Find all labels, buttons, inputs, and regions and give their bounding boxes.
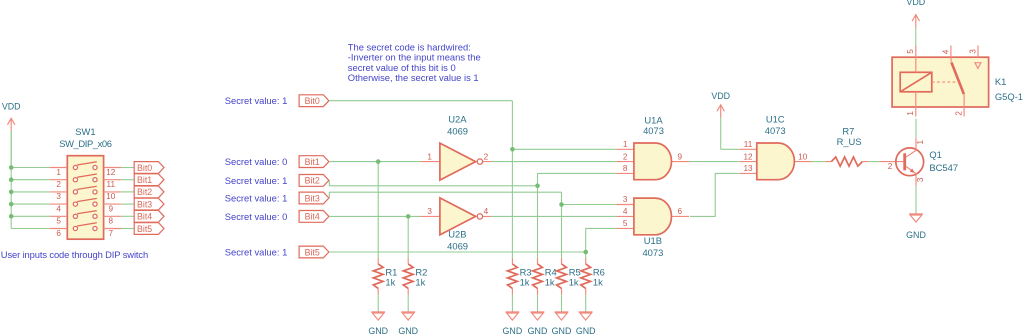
- svg-text:1: 1: [916, 139, 925, 144]
- wire Bit5 down to R6: [585, 252, 587, 258]
- svg-text:5: 5: [906, 49, 915, 54]
- svg-text:11: 11: [744, 140, 753, 149]
- junction Bit0 / U1A pin1: [510, 147, 515, 152]
- wire Bit2 up to U1A pin 8: [538, 173, 617, 185]
- switch SW1 SW_DIP_x06 body: [59, 126, 111, 239]
- svg-text:1k: 1k: [415, 277, 425, 288]
- AND gate U1B 4073: [616, 195, 689, 258]
- wire net Bit4 to U2B input: [329, 215, 421, 217]
- global label Bit2 (from SW1): [134, 186, 164, 198]
- svg-text:1k: 1k: [593, 277, 603, 288]
- svg-text:Bit0: Bit0: [137, 163, 152, 173]
- wire U1A pin 9 to U1C pin 12: [689, 161, 739, 163]
- AND gate U1A 4073: [616, 114, 689, 179]
- wire net Bit1 to U2A input: [329, 161, 421, 163]
- wire net Bit0 to U1A pin 1: [512, 148, 616, 150]
- svg-text:SW1: SW1: [75, 126, 95, 137]
- global label Bit5 (from SW1): [134, 223, 164, 235]
- svg-text:User inputs code through DIP s: User inputs code through DIP switch: [1, 249, 148, 260]
- inverter U2A 4069: [420, 113, 491, 180]
- junction Bit2 / R4: [535, 184, 540, 189]
- svg-text:4: 4: [56, 204, 61, 213]
- svg-text:2: 2: [954, 111, 963, 116]
- wire U2B output to U1B pin 4: [491, 215, 616, 217]
- svg-text:1k: 1k: [545, 277, 555, 288]
- svg-text:3: 3: [969, 49, 978, 54]
- wire R3 to GND: [511, 295, 513, 312]
- svg-text:1k: 1k: [385, 277, 395, 288]
- ground below R2: [398, 312, 418, 336]
- svg-text:GND: GND: [906, 230, 926, 240]
- wire net Bit2 horizontal: [329, 185, 537, 187]
- svg-text:3: 3: [916, 177, 925, 182]
- svg-text:Secret value: 1: Secret value: 1: [225, 175, 288, 186]
- svg-text:Otherwise, the secret value is: Otherwise, the secret value is 1: [348, 72, 479, 83]
- resistor R3 1k: [508, 258, 532, 295]
- global label Bit0 (to logic): [299, 95, 329, 107]
- resistor R7 R_US: [825, 125, 868, 166]
- wire net Bit3 horizontal: [329, 191, 561, 193]
- junction Bit4 / R2: [406, 214, 411, 219]
- global label Bit3 (to logic): [299, 192, 329, 204]
- junction rail row 4: [9, 202, 14, 207]
- wire R2 to GND: [407, 295, 409, 312]
- wire net Bit5 horizontal: [329, 251, 586, 253]
- svg-text:1: 1: [56, 168, 61, 177]
- svg-text:VDD: VDD: [2, 101, 21, 111]
- svg-text:K1: K1: [995, 76, 1006, 87]
- svg-text:Bit0: Bit0: [305, 96, 320, 106]
- wire VDD rail to SW1 pin 2: [11, 179, 50, 181]
- transistor Q1 BC547: [879, 138, 958, 186]
- svg-text:Bit2: Bit2: [305, 176, 320, 186]
- svg-text:R7: R7: [842, 125, 854, 136]
- resistor R1 1k: [373, 258, 397, 295]
- svg-text:U1A: U1A: [644, 114, 663, 125]
- wire U2A output to U1A pin 2: [491, 161, 616, 163]
- svg-text:4: 4: [623, 207, 628, 216]
- junction rail row 5: [9, 214, 14, 219]
- global label Bit5 (to logic): [299, 246, 329, 258]
- svg-text:4: 4: [941, 49, 950, 54]
- ground below R5: [552, 312, 572, 336]
- wire VDD rail to SW1 pin 3: [11, 191, 50, 193]
- svg-text:Bit4: Bit4: [305, 212, 320, 222]
- inverter U2B 4069: [420, 198, 491, 252]
- wire SW1 pin 10 to label Bit2: [121, 191, 134, 193]
- wire net Bit0 horizontal: [329, 100, 513, 102]
- svg-text:Q1: Q1: [929, 149, 942, 160]
- junction rail row 1: [9, 165, 14, 170]
- svg-text:Bit5: Bit5: [137, 224, 152, 234]
- svg-text:1: 1: [623, 140, 628, 149]
- svg-text:2: 2: [623, 152, 628, 161]
- wire net Bit2 jog: [328, 180, 330, 185]
- global label Bit1 (to logic): [299, 156, 329, 168]
- svg-text:Bit1: Bit1: [305, 157, 320, 167]
- wire relay pin 1 to Q1 collector: [915, 119, 917, 138]
- wire VDD rail to SW1 pin 5: [11, 215, 50, 217]
- wire R6 to GND: [585, 295, 587, 312]
- svg-text:2: 2: [56, 180, 61, 189]
- svg-text:GND: GND: [552, 326, 572, 336]
- svg-text:7: 7: [109, 229, 114, 238]
- svg-text:10: 10: [106, 192, 116, 201]
- SW1 element 1 (pins 1/12): [50, 162, 121, 177]
- svg-text:9: 9: [678, 152, 683, 161]
- svg-text:VDD: VDD: [906, 0, 925, 7]
- svg-text:4073: 4073: [765, 125, 786, 136]
- power flag VDD (U1C pin 11): [711, 91, 730, 149]
- svg-text:8: 8: [109, 217, 114, 226]
- svg-text:1: 1: [427, 152, 432, 161]
- svg-text:Secret value: 1: Secret value: 1: [225, 95, 288, 106]
- wire SW1 pin 11 to label Bit1: [121, 179, 134, 181]
- svg-text:U1C: U1C: [766, 114, 785, 125]
- ground below R3: [503, 312, 523, 336]
- svg-text:U2B: U2B: [448, 229, 466, 240]
- wire Bit4 down to R2: [407, 216, 409, 258]
- svg-text:G5Q-1: G5Q-1: [995, 91, 1023, 102]
- wire VDD rail to SW1 pin 6: [11, 228, 50, 230]
- global label Bit4 (from SW1): [134, 210, 164, 222]
- svg-text:Bit1: Bit1: [137, 175, 152, 185]
- svg-text:9: 9: [109, 204, 114, 213]
- wire R7 to Q1 base: [868, 161, 879, 163]
- power flag VDD (left rail): [2, 101, 21, 167]
- wire VDD to U1C pin 11: [721, 148, 739, 150]
- svg-text:BC547: BC547: [929, 162, 958, 173]
- svg-text:Bit3: Bit3: [137, 199, 152, 209]
- svg-text:U2A: U2A: [448, 113, 467, 124]
- junction rail row 2: [9, 177, 14, 182]
- svg-text:Bit5: Bit5: [305, 247, 320, 257]
- wire Bit3 down to U1B pin 3: [562, 192, 617, 204]
- svg-text:3: 3: [427, 207, 432, 216]
- wire U1C pin 10 to R7: [811, 161, 825, 163]
- svg-text:4069: 4069: [447, 241, 468, 252]
- svg-text:3: 3: [56, 192, 61, 201]
- svg-text:4: 4: [484, 207, 489, 216]
- svg-text:U1B: U1B: [644, 235, 662, 246]
- junction Bit3 / R5: [559, 202, 564, 207]
- svg-text:13: 13: [743, 164, 753, 173]
- relay K1 G5Q-1: [892, 46, 1023, 117]
- svg-text:12: 12: [743, 152, 753, 161]
- svg-text:10: 10: [798, 152, 808, 161]
- junction Bit5 / R6: [583, 250, 588, 255]
- SW1 element 5 (pins 5/8): [50, 211, 121, 226]
- resistor R5 1k: [557, 258, 581, 295]
- svg-text:11: 11: [107, 180, 116, 189]
- resistor R4 1k: [533, 258, 557, 295]
- wire Q1 emitter to GND: [915, 186, 917, 214]
- svg-text:GND: GND: [576, 326, 596, 336]
- svg-text:Secret value: 0: Secret value: 0: [225, 156, 288, 167]
- svg-text:GND: GND: [368, 326, 388, 336]
- svg-text:4073: 4073: [643, 125, 664, 136]
- svg-text:2: 2: [484, 152, 489, 161]
- svg-text:Bit3: Bit3: [305, 193, 320, 203]
- global label Bit1 (from SW1): [134, 174, 164, 186]
- wire R4 to GND: [537, 295, 539, 312]
- svg-text:4073: 4073: [642, 247, 663, 258]
- svg-text:VDD: VDD: [711, 91, 730, 101]
- svg-text:Secret value: 1: Secret value: 1: [225, 192, 288, 203]
- SW1 element 6 (pins 6/7): [50, 223, 121, 238]
- wire VDD rail to SW1 pin 4: [11, 203, 50, 205]
- global label Bit3 (from SW1): [134, 198, 164, 210]
- wire SW1 pin 9 to label Bit3: [121, 203, 134, 205]
- wire Bit3 down to R5: [561, 205, 563, 258]
- wire U1B pin 6 routing to U1C pin 13: [690, 173, 739, 216]
- svg-text:5: 5: [56, 217, 61, 226]
- resistor R6 1k: [581, 258, 605, 295]
- wire net Bit0 vertical to R3: [511, 101, 513, 258]
- wire Bit1 down to R1: [377, 162, 379, 258]
- svg-text:Secret value: 1: Secret value: 1: [225, 246, 288, 257]
- wire SW1 pin 7 to label Bit5: [121, 228, 134, 230]
- wire R1 to GND: [377, 295, 379, 312]
- svg-text:SW_DIP_x06: SW_DIP_x06: [59, 138, 111, 149]
- global label Bit2 (to logic): [299, 175, 329, 187]
- ground below R6: [576, 312, 596, 336]
- wire Bit2 down to R4: [537, 186, 539, 258]
- svg-text:GND: GND: [528, 326, 548, 336]
- AND gate U1C 4073: [739, 114, 812, 180]
- SW1 element 2 (pins 2/11): [50, 174, 121, 189]
- svg-text:8: 8: [623, 164, 628, 173]
- svg-text:2: 2: [888, 162, 893, 171]
- svg-text:1k: 1k: [569, 277, 579, 288]
- global label Bit4 (to logic): [299, 211, 329, 223]
- svg-text:Secret value: 0: Secret value: 0: [225, 211, 288, 222]
- wire Bit5 up to U1B pin 5: [586, 228, 617, 252]
- svg-text:4069: 4069: [447, 125, 468, 136]
- svg-text:6: 6: [678, 207, 683, 216]
- resistor R2 1k: [403, 258, 427, 295]
- wire VDD rail to SW1 pin 1: [11, 167, 50, 169]
- SW1 element 3 (pins 3/10): [50, 186, 121, 201]
- ground below Q1: [906, 214, 926, 240]
- svg-text:6: 6: [56, 229, 61, 238]
- svg-text:GND: GND: [503, 326, 523, 336]
- wire net Bit3 jog: [328, 192, 330, 198]
- svg-text:1: 1: [906, 111, 915, 116]
- SW1 element 4 (pins 4/9): [50, 198, 121, 213]
- svg-text:Bit2: Bit2: [137, 187, 152, 197]
- ground below R1: [368, 312, 388, 336]
- ground below R4: [528, 312, 548, 336]
- svg-text:5: 5: [623, 219, 628, 228]
- svg-text:GND: GND: [398, 326, 418, 336]
- junction Bit1 / R1: [376, 159, 381, 164]
- svg-text:R_US: R_US: [837, 136, 862, 147]
- note: secret code explanation: [348, 41, 481, 83]
- power flag VDD (relay pin 5): [906, 0, 925, 46]
- wire R5 to GND: [561, 295, 563, 312]
- wire left VDD rail vertical: [10, 131, 12, 229]
- global label Bit0 (from SW1): [134, 162, 164, 174]
- svg-text:1k: 1k: [520, 277, 530, 288]
- wire SW1 pin 12 to label Bit0: [121, 167, 134, 169]
- wire SW1 pin 8 to label Bit4: [121, 215, 134, 217]
- junction rail row 3: [9, 190, 14, 195]
- svg-text:Bit4: Bit4: [137, 212, 152, 222]
- svg-text:12: 12: [106, 168, 116, 177]
- svg-text:3: 3: [623, 195, 628, 204]
